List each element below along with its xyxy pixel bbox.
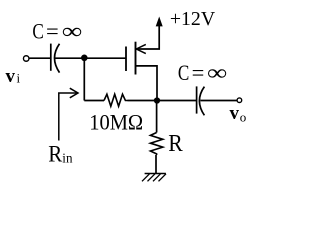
svg-text:=: = bbox=[192, 60, 205, 85]
transistor Q1 drain arrowhead bbox=[136, 44, 146, 53]
svg-text:R: R bbox=[48, 141, 63, 166]
Rin marker arrow bbox=[59, 93, 77, 141]
resistor 10M zigzag bbox=[104, 94, 128, 106]
transistor Q1 gate bar bbox=[125, 47, 127, 72]
wire C1 to gate bbox=[55, 57, 126, 59]
svg-text:∞: ∞ bbox=[207, 60, 227, 85]
+12V supply arrow bbox=[156, 17, 163, 27]
transistor Q1 drain lead bbox=[136, 24, 160, 49]
svg-text:10MΩ: 10MΩ bbox=[89, 110, 143, 135]
node gate junction dot bbox=[81, 55, 88, 62]
svg-text:o: o bbox=[240, 109, 247, 124]
wire C2 to output terminal bbox=[200, 100, 236, 102]
wire terminal to C1 bbox=[29, 57, 50, 59]
svg-text:v: v bbox=[230, 103, 240, 124]
capacitor C2 flat plate bbox=[196, 86, 198, 113]
svg-text:=: = bbox=[46, 18, 59, 43]
svg-text:C: C bbox=[32, 19, 43, 44]
resistor R zigzag bbox=[150, 133, 162, 156]
ground bbox=[145, 173, 166, 175]
wire rail left corner to resistor bbox=[84, 100, 104, 102]
svg-text:C: C bbox=[178, 61, 189, 86]
wire zigzag to source node bbox=[128, 100, 158, 102]
node source junction dot bbox=[154, 97, 160, 103]
svg-text:in: in bbox=[62, 151, 72, 166]
svg-text:+12V: +12V bbox=[170, 8, 216, 30]
capacitor C1 flat plate bbox=[50, 44, 52, 71]
wire node to output cap bbox=[157, 100, 196, 102]
svg-text:∞: ∞ bbox=[62, 18, 83, 43]
wire node down to R bbox=[156, 101, 158, 133]
svg-text:i: i bbox=[17, 71, 21, 86]
capacitor C1 curved plate bbox=[55, 44, 60, 73]
svg-text:v: v bbox=[6, 66, 16, 87]
wire node down to 10M rail bbox=[83, 58, 85, 101]
capacitor C2 curved plate bbox=[199, 87, 204, 116]
transistor Q1 channel bar bbox=[135, 42, 137, 75]
output terminal vo bbox=[237, 98, 242, 103]
transistor Q1 source lead bbox=[136, 66, 158, 101]
svg-text:R: R bbox=[168, 131, 183, 157]
wire R to ground bbox=[155, 155, 157, 174]
input terminal vi bbox=[23, 56, 29, 62]
